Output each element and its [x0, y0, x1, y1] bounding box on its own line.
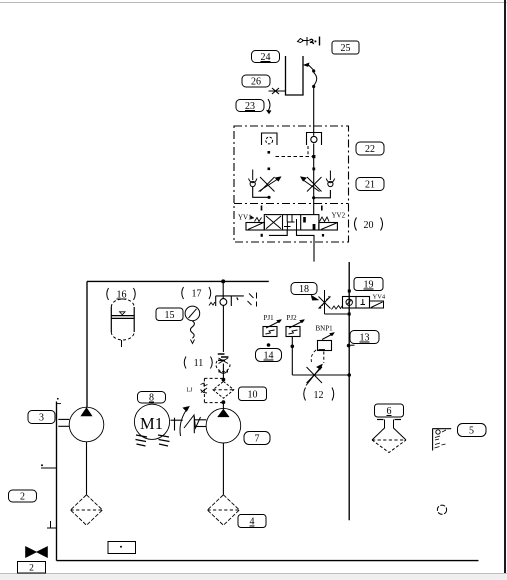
label 11 — [184, 357, 212, 370]
motor M1 — [134, 404, 169, 439]
wire: PJ2 drop line — [291, 337, 293, 376]
label 22 — [356, 142, 384, 155]
plugged port with X (item 23) — [269, 88, 286, 94]
svg-text:15: 15 — [165, 310, 175, 321]
label 4 — [238, 515, 266, 528]
label 3 — [28, 411, 55, 424]
svg-text:22: 22 — [365, 144, 375, 155]
bottom grey strip — [0, 574, 507, 580]
shutoff valve 2 (butterfly) — [26, 547, 48, 558]
directional valve 4/3 (item 20) body — [264, 215, 319, 230]
wire: pressure header horizontal line — [87, 280, 269, 282]
motor mount spring R — [158, 435, 170, 446]
node on PJ2 line — [291, 345, 295, 349]
tank bottom line — [57, 560, 479, 562]
label 7 — [244, 432, 270, 445]
svg-text:21: 21 — [365, 180, 375, 191]
label 12 — [304, 388, 334, 402]
wire: main line into valve — [313, 198, 315, 215]
nozzle jet doodle at top — [298, 37, 320, 46]
shock absorber / check item 11 — [216, 354, 230, 373]
node above valve 19 — [348, 290, 351, 293]
svg-text:18: 18 — [299, 284, 309, 295]
label 19 — [354, 278, 383, 291]
svg-text:20: 20 — [364, 220, 374, 231]
label 26 — [242, 75, 270, 88]
wire: right main vertical line — [348, 262, 350, 520]
svg-text:11: 11 — [194, 358, 204, 369]
pressure transmitter BNP1 — [311, 325, 334, 364]
node on main line — [312, 168, 315, 171]
tick above valve left — [261, 206, 263, 211]
svg-text:YV4: YV4 — [373, 294, 386, 301]
pump 3 — [58, 407, 103, 495]
bottom hairline — [0, 573, 507, 575]
wire: riser between 11 and filter 10 — [222, 364, 224, 382]
label 20 — [355, 218, 383, 232]
tick above valve right — [321, 206, 323, 211]
top hairline — [0, 2, 507, 4]
label 2 (plate) — [18, 562, 46, 574]
drain port circle — [437, 505, 446, 514]
level gauge 5 — [433, 428, 452, 450]
pilot dashed horizontal line — [276, 156, 314, 158]
svg-text:19: 19 — [364, 280, 374, 291]
wire: valve outlet jog down — [297, 230, 315, 262]
right page border — [504, 0, 506, 573]
wire: pump 7 riser upper — [222, 281, 224, 298]
wire: valve T-port drop left — [269, 230, 287, 235]
relief mark right of check 17 — [248, 293, 257, 307]
wire: main line through manifold — [313, 144, 315, 178]
pressure switch PJ1 — [263, 314, 282, 337]
label 10 — [239, 387, 267, 401]
gauge port R (test point on main line) — [307, 133, 322, 146]
pressure gauge 15 — [185, 306, 200, 343]
node on main line at pilot tee — [312, 155, 315, 158]
label 1 (plate with dot) — [108, 542, 136, 554]
flow control valve L (check + adjustable throttle) — [249, 170, 282, 199]
flexible hose arc (item 25 leader area) — [312, 69, 317, 88]
svg-text:YV2: YV2 — [332, 212, 346, 220]
node on header — [221, 279, 225, 283]
cartridge valve 19 with solenoid YV4 — [343, 297, 384, 309]
label 5 — [458, 424, 487, 437]
coupling / rotation arrow — [171, 406, 201, 436]
air breather 6 — [372, 420, 406, 453]
svg-text:8: 8 — [149, 393, 154, 404]
throttle valve 18 — [319, 290, 350, 314]
svg-text:PJ2: PJ2 — [287, 314, 298, 322]
pilot line dashes from gauge port R — [307, 146, 309, 157]
label 6 — [375, 404, 404, 417]
svg-text:BNP1: BNP1 — [316, 325, 334, 333]
tank suction stand pipe — [41, 398, 61, 561]
flow control valve R (check + adjustable throttle) on main line — [300, 171, 334, 200]
svg-text:25: 25 — [341, 43, 351, 54]
dotted pilot drops on left branch — [268, 151, 271, 170]
label 15 — [156, 308, 183, 321]
throttle valve 12 on tee line — [292, 364, 349, 386]
svg-text:YV1: YV1 — [238, 214, 252, 222]
svg-text:13: 13 — [360, 333, 370, 344]
node at 314 tee — [348, 313, 351, 316]
manifold inner partition dash-dot line — [234, 203, 349, 205]
spray arrow into tank (item 26) — [304, 63, 314, 70]
label 24 — [252, 51, 280, 64]
svg-text:10: 10 — [248, 390, 258, 401]
wire: main supply line down from hose to manifold — [313, 88, 315, 136]
svg-text:23: 23 — [245, 101, 255, 112]
svg-text:26: 26 — [251, 77, 261, 88]
valve position center: blocked ports — [284, 215, 315, 230]
svg-text:2: 2 — [20, 492, 25, 503]
label 2 — [9, 490, 37, 503]
label 23 — [236, 99, 271, 114]
accumulator 16 — [111, 299, 134, 347]
valve position L: crossed arrows — [266, 216, 281, 229]
svg-text:M1: M1 — [140, 414, 163, 433]
svg-text:14: 14 — [264, 351, 274, 362]
svg-text:3: 3 — [39, 413, 44, 424]
solenoid YV2 — [319, 217, 338, 230]
label 21 — [356, 178, 384, 191]
label 17 — [182, 287, 211, 300]
node at line-12 tee — [347, 373, 351, 377]
tank 24 (upper reservoir) — [286, 56, 304, 95]
svg-text:2: 2 — [29, 564, 34, 574]
suction strainer 4 (right) — [207, 495, 239, 525]
label 8 — [138, 392, 166, 404]
svg-text:17: 17 — [192, 289, 202, 300]
svg-text:4: 4 — [250, 517, 255, 528]
pump 7 — [194, 402, 240, 495]
gauge port L (test point) — [262, 133, 278, 145]
wire: riser between check 17 and item 11 — [222, 306, 224, 353]
svg-text:5: 5 — [469, 426, 474, 437]
pressure switch PJ2 — [286, 314, 305, 337]
label 16 — [107, 288, 136, 301]
svg-text:24: 24 — [261, 52, 271, 63]
suction filter 10 — [201, 378, 234, 404]
svg-text:7: 7 — [255, 434, 260, 445]
label 18 — [291, 283, 319, 301]
svg-text:12: 12 — [314, 390, 324, 401]
wire: pump 3 riser — [86, 281, 88, 407]
svg-text:LJ: LJ — [187, 388, 194, 394]
label 25 — [332, 41, 359, 54]
label 14 with leader dot — [256, 343, 282, 361]
node above filter 10 — [222, 378, 226, 382]
solenoid YV1 — [246, 216, 264, 231]
manifold enclosure (dash-dot box) — [234, 126, 349, 242]
suction strainer 1 (left) — [71, 495, 103, 525]
svg-text:PJ1: PJ1 — [264, 314, 275, 322]
motor mount spring L — [136, 435, 148, 446]
label 13 — [347, 331, 379, 348]
svg-text:6: 6 — [387, 406, 392, 417]
check valve 17 on pump-7 riser — [209, 296, 244, 306]
